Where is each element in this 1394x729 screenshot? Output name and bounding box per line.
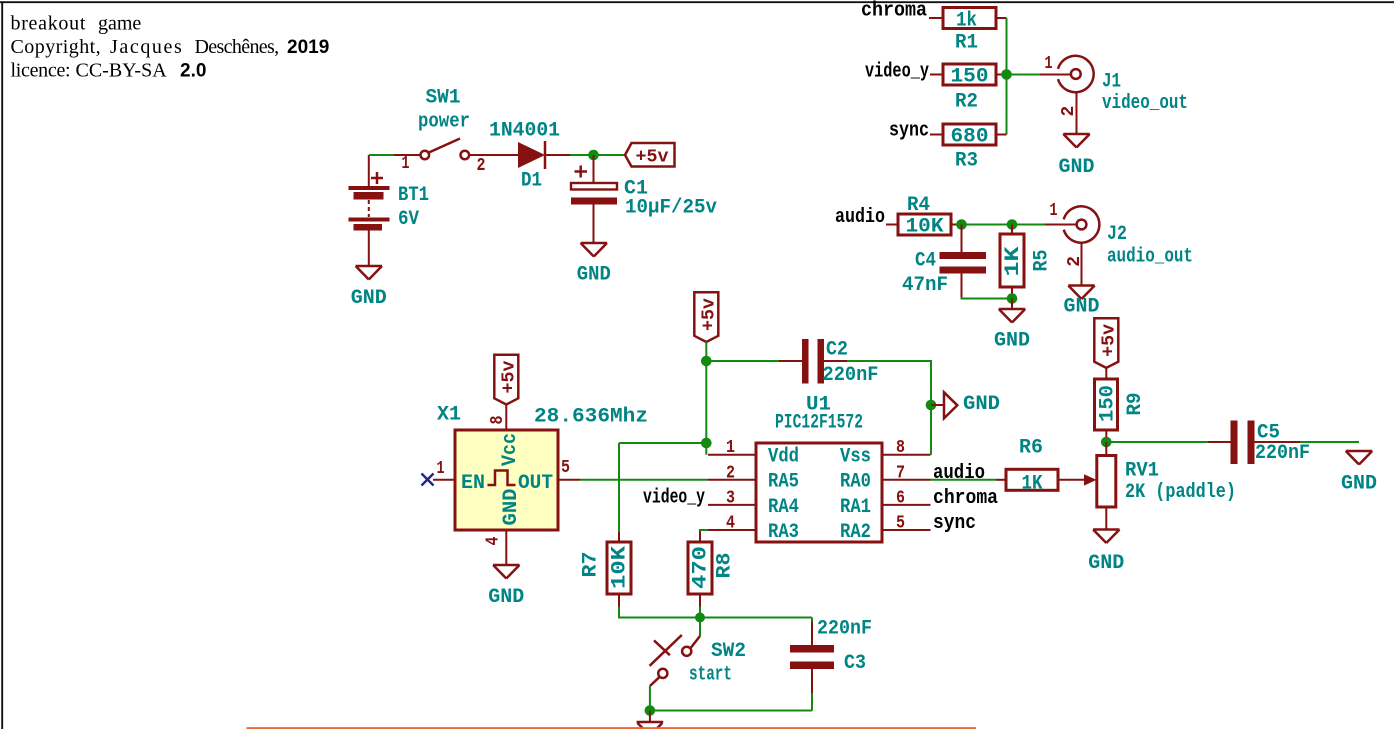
svg-text:X1: X1 xyxy=(437,404,461,427)
svg-text:R4: R4 xyxy=(907,194,930,217)
svg-text:breakoutgame: breakoutgame xyxy=(11,13,142,35)
svg-text:OUT: OUT xyxy=(518,472,553,495)
svg-text:1: 1 xyxy=(1050,201,1058,221)
svg-text:RA4: RA4 xyxy=(768,496,799,519)
svg-text:8: 8 xyxy=(896,438,905,458)
svg-text:audio_out: audio_out xyxy=(1107,246,1193,269)
svg-text:8: 8 xyxy=(488,416,508,425)
svg-text:R6: R6 xyxy=(1019,437,1043,460)
svg-text:PIC12F1572: PIC12F1572 xyxy=(775,412,863,435)
svg-text:680: 680 xyxy=(951,126,989,149)
svg-text:1N4001: 1N4001 xyxy=(489,120,560,143)
svg-text:150: 150 xyxy=(951,66,989,89)
svg-text:1: 1 xyxy=(726,438,735,458)
svg-text:R3: R3 xyxy=(955,150,978,173)
svg-text:6V: 6V xyxy=(398,208,419,231)
svg-text:RA3: RA3 xyxy=(768,521,799,544)
svg-text:2: 2 xyxy=(1065,256,1085,267)
svg-text:licence:CC-BY-SA2.0: licence:CC-BY-SA2.0 xyxy=(11,60,207,82)
svg-text:R5: R5 xyxy=(1031,250,1054,272)
svg-text:GND: GND xyxy=(351,287,387,310)
svg-text:power: power xyxy=(418,111,470,134)
svg-text:RA5: RA5 xyxy=(768,471,799,494)
svg-text:+5v: +5v xyxy=(636,148,669,168)
svg-text:5: 5 xyxy=(561,458,570,478)
svg-text:R2: R2 xyxy=(955,91,978,114)
svg-text:220nF: 220nF xyxy=(1255,442,1310,465)
svg-text:video_y: video_y xyxy=(643,486,705,509)
svg-text:4: 4 xyxy=(726,514,735,534)
svg-text:GND: GND xyxy=(1341,473,1377,496)
svg-text:BT1: BT1 xyxy=(398,184,429,207)
svg-text:2: 2 xyxy=(477,156,486,176)
svg-text:2K (paddle): 2K (paddle) xyxy=(1125,481,1236,504)
svg-text:4: 4 xyxy=(484,536,504,545)
svg-text:10K: 10K xyxy=(906,216,944,239)
svg-text:Copyright,JacquesDeschênes,201: Copyright,JacquesDeschênes,2019 xyxy=(11,36,330,58)
svg-text:C4: C4 xyxy=(915,250,936,273)
svg-text:SW1: SW1 xyxy=(426,87,461,110)
svg-text:220nF: 220nF xyxy=(817,618,872,641)
svg-text:10µF/25v: 10µF/25v xyxy=(625,197,717,220)
svg-text:GND: GND xyxy=(488,586,524,609)
svg-text:sync: sync xyxy=(933,512,976,535)
svg-text:video_out: video_out xyxy=(1102,92,1188,115)
svg-text:220nF: 220nF xyxy=(823,364,879,387)
svg-text:+5v: +5v xyxy=(500,360,520,393)
svg-text:RA1: RA1 xyxy=(840,496,871,519)
svg-text:D1: D1 xyxy=(521,170,542,193)
svg-text:5: 5 xyxy=(896,514,905,534)
svg-text:1: 1 xyxy=(402,154,410,174)
svg-text:EN: EN xyxy=(461,472,485,495)
svg-text:2: 2 xyxy=(726,463,735,483)
svg-text:1: 1 xyxy=(1045,54,1053,74)
svg-text:GND: GND xyxy=(1088,552,1124,575)
svg-text:GND: GND xyxy=(963,393,1000,416)
svg-text:Vcc: Vcc xyxy=(499,433,522,466)
svg-text:audio: audio xyxy=(835,206,885,229)
svg-text:start: start xyxy=(689,664,732,687)
svg-text:R9: R9 xyxy=(1124,393,1147,416)
svg-text:R7: R7 xyxy=(580,552,603,578)
svg-text:RA0: RA0 xyxy=(840,471,871,494)
svg-text:6: 6 xyxy=(896,488,905,508)
svg-text:GND: GND xyxy=(1064,296,1100,319)
svg-text:chroma: chroma xyxy=(933,487,998,510)
svg-text:GND: GND xyxy=(577,264,611,287)
svg-text:150: 150 xyxy=(1097,385,1120,422)
svg-text:sync: sync xyxy=(889,120,929,143)
svg-text:R1: R1 xyxy=(955,32,978,55)
svg-text:RV1: RV1 xyxy=(1125,460,1159,483)
svg-text:J1: J1 xyxy=(1102,71,1121,94)
svg-text:audio: audio xyxy=(933,462,985,485)
svg-text:2: 2 xyxy=(1059,106,1079,117)
svg-text:1K: 1K xyxy=(1002,247,1025,277)
svg-text:1: 1 xyxy=(437,459,445,479)
svg-text:GND: GND xyxy=(1059,156,1095,179)
svg-text:Vdd: Vdd xyxy=(768,446,799,469)
svg-text:C3: C3 xyxy=(844,652,866,675)
svg-text:1K: 1K xyxy=(1022,472,1043,495)
svg-text:3: 3 xyxy=(726,488,735,508)
svg-text:47nF: 47nF xyxy=(902,274,948,297)
svg-text:C2: C2 xyxy=(826,339,848,362)
svg-text:470: 470 xyxy=(690,546,713,589)
svg-text:R8: R8 xyxy=(714,553,737,579)
svg-text:video_y: video_y xyxy=(865,61,929,84)
svg-text:SW2: SW2 xyxy=(711,640,746,663)
svg-text:GND: GND xyxy=(500,489,523,526)
svg-text:1k: 1k xyxy=(956,10,977,33)
svg-text:Vss: Vss xyxy=(840,446,871,469)
svg-text:+5v: +5v xyxy=(700,298,720,331)
svg-text:+5v: +5v xyxy=(1100,324,1120,357)
svg-text:J2: J2 xyxy=(1107,223,1127,246)
svg-text:7: 7 xyxy=(896,463,905,483)
svg-text:chroma: chroma xyxy=(861,0,927,23)
svg-text:10K: 10K xyxy=(609,546,632,589)
svg-text:RA2: RA2 xyxy=(840,521,871,544)
svg-text:28.636Mhz: 28.636Mhz xyxy=(534,406,648,429)
svg-text:GND: GND xyxy=(994,330,1030,353)
